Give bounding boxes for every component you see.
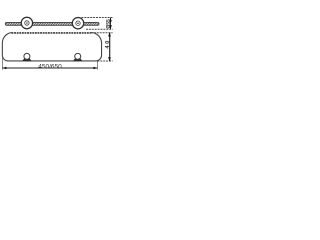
extension line shelf top right	[91, 32, 113, 34]
extension line shelf bottom right	[97, 60, 112, 62]
arrow width left	[2, 67, 6, 70]
dome foot right cap	[75, 53, 81, 59]
dimension line flange diameter	[110, 18, 112, 29]
flange knob right dot	[77, 22, 79, 24]
flange knob right outer	[72, 18, 83, 29]
svg-text:Ø55: Ø55	[106, 19, 112, 29]
arrow shelf bottom	[108, 57, 111, 61]
flange knob right ring	[76, 21, 80, 25]
arrow flange bottom	[109, 25, 112, 29]
svg-text:40: 40	[105, 39, 111, 48]
flange knob left outer	[21, 17, 32, 28]
extension line knob bottom	[86, 28, 113, 30]
extension line knob top	[82, 17, 113, 19]
extension line width left	[2, 55, 4, 70]
extension line width right	[96, 61, 98, 69]
shelf outline (front view)	[2, 33, 101, 61]
arrow width right	[93, 67, 97, 70]
arrow shelf top	[108, 32, 111, 36]
shelf top edge hatched	[12, 32, 92, 34]
dome foot left cap	[24, 53, 30, 59]
rod (top view towel bar)	[5, 22, 99, 25]
dome foot left base	[22, 58, 32, 61]
svg-text:450/650: 450/650	[38, 63, 62, 70]
dimension line shelf height	[109, 33, 111, 61]
dome foot right base	[73, 58, 83, 61]
arrow flange top	[109, 17, 112, 21]
flange knob left ring	[25, 21, 29, 25]
dimension line width	[3, 67, 98, 69]
flange knob left dot	[26, 22, 28, 24]
